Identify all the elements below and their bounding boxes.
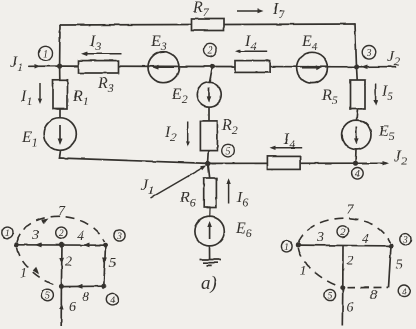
node 1 junction dot	[57, 64, 62, 69]
svg-text:4: 4	[362, 232, 369, 247]
wire node2 column down	[208, 67, 213, 164]
ground	[200, 260, 222, 266]
svg-text:8: 8	[82, 290, 89, 305]
wire left vertical node1 to top rail	[59, 25, 61, 66]
wire node1 column down	[59, 66, 60, 158]
resistor R4	[235, 61, 270, 73]
left graph: node 4 dot	[101, 284, 106, 289]
current arrow J2 out of node 4	[356, 161, 390, 165]
svg-text:4: 4	[77, 229, 84, 244]
left graph: edge 5 vertical with down arrow	[102, 245, 107, 286]
svg-text:5: 5	[45, 292, 50, 302]
resistor R6	[204, 178, 217, 207]
wire node5 down to ground branch	[208, 163, 210, 259]
left graph: edge 2 vertical with down arrow	[59, 245, 64, 287]
node 3 label circle	[362, 46, 376, 60]
wire middle row node1 row	[29, 65, 396, 68]
right graph: edge 5 vertical	[389, 246, 392, 288]
current arrow I3	[81, 52, 122, 56]
right graph: node 2 circle	[337, 226, 348, 238]
right graph: node 3 dot	[389, 243, 394, 248]
left graph: node 5 circle	[42, 289, 54, 302]
svg-text:7: 7	[58, 204, 66, 219]
current source J1 diagonal arrow into node 5	[151, 165, 207, 198]
right graph: dashed arc edge 7	[299, 218, 391, 243]
svg-text:2: 2	[208, 46, 213, 57]
svg-text:2: 2	[59, 229, 64, 239]
EMF source E3	[148, 52, 179, 83]
svg-text:2: 2	[347, 254, 354, 269]
resistor R1	[53, 80, 68, 109]
current arrow I2	[186, 122, 190, 147]
svg-text:1: 1	[300, 264, 307, 279]
current arrow I6	[226, 178, 230, 203]
svg-text:5: 5	[226, 146, 231, 157]
right graph: node 1 circle	[281, 241, 292, 253]
svg-text:3: 3	[366, 48, 372, 59]
left graph: edge 8 horizontal with left arrow	[61, 284, 103, 289]
wire top rail	[60, 24, 355, 25]
current arrow I7	[237, 9, 264, 13]
node 1 label circle	[39, 46, 53, 60]
left graph: dashed arc edge 7	[17, 216, 105, 242]
svg-text:3: 3	[116, 232, 122, 242]
left graph: node 1 dot	[14, 242, 19, 247]
svg-text:6: 6	[69, 300, 76, 315]
right graph: node 5 dot	[340, 285, 345, 290]
svg-text:1: 1	[43, 49, 48, 60]
left graph: arrow on arc 7	[42, 219, 49, 225]
node 5 label circle	[222, 144, 235, 157]
current arrow I1	[38, 83, 42, 104]
resistor R2	[200, 121, 217, 151]
EMF source E6	[195, 217, 224, 246]
svg-text:1: 1	[5, 229, 10, 239]
left graph: arrow on arc 1	[33, 267, 39, 275]
node 2 label circle	[204, 43, 217, 56]
EMF source E1	[44, 118, 77, 151]
right graph: edge 8 dashed	[348, 286, 389, 288]
svg-text:а): а)	[201, 273, 217, 294]
node 5 junction dot	[205, 161, 210, 166]
node 2 junction dot	[210, 64, 215, 69]
resistor R7	[192, 19, 225, 31]
right graph: node 3 circle	[400, 234, 411, 246]
current arrow I5	[373, 84, 377, 106]
current arrow I4 bottom	[270, 146, 303, 150]
node 3 junction dot	[354, 64, 359, 69]
left graph: node 3 circle	[114, 230, 125, 242]
left graph: node 2 dot	[60, 242, 65, 247]
svg-text:4: 4	[402, 288, 407, 298]
left graph: edge 6 vertical with up arrow	[59, 286, 64, 326]
left graph: node 3 dot	[103, 243, 108, 248]
svg-text:6: 6	[347, 301, 354, 316]
resistor R3	[79, 61, 119, 73]
svg-text:1: 1	[284, 243, 289, 253]
resistor R8 bottom row	[267, 156, 300, 169]
svg-text:2: 2	[340, 228, 345, 238]
svg-text:8: 8	[370, 288, 377, 303]
EMF source E4	[297, 52, 328, 83]
svg-text:4: 4	[110, 296, 115, 306]
wire node3 column down	[356, 67, 358, 163]
current source J1 arrow left	[34, 64, 41, 69]
svg-text:7: 7	[347, 203, 355, 218]
right graph: horizontal line edges 3 and 4	[298, 244, 391, 247]
current arrow I4 top	[235, 49, 268, 53]
left graph: node 2 circle	[56, 227, 67, 239]
svg-text:5: 5	[109, 256, 116, 271]
right graph: node 5 circle	[324, 289, 335, 301]
left graph: dashed arc edge 1	[17, 248, 60, 286]
left graph: edge 3 arrow toward node 1	[35, 242, 42, 247]
left graph: node 4 circle	[107, 293, 119, 305]
left graph: edge 4 arrow toward node 2	[83, 243, 90, 248]
svg-text:2: 2	[65, 255, 72, 270]
right graph: edge 6 vertical	[341, 288, 344, 326]
left graph: horizontal line edges 3 and 4	[16, 244, 105, 246]
left graph: node 1 circle	[2, 227, 13, 239]
right graph: node 1 dot	[296, 243, 301, 248]
svg-text:3: 3	[31, 228, 39, 243]
EMF source E2	[197, 82, 221, 106]
svg-text:5: 5	[328, 292, 333, 302]
current arrow J2 into node 3	[361, 65, 368, 70]
wire right vertical top rail to node 3	[355, 24, 357, 67]
right graph: edge 2 vertical	[342, 246, 344, 288]
svg-text:5: 5	[396, 258, 403, 273]
left graph: node 5 dot	[59, 284, 64, 289]
svg-text:1: 1	[20, 266, 27, 281]
wire bottom rail	[59, 158, 356, 163]
right graph: node 4 circle	[398, 285, 410, 298]
right graph: dashed arc edge 1	[298, 248, 341, 287]
svg-text:3: 3	[402, 236, 408, 246]
svg-text:3: 3	[316, 230, 324, 245]
svg-text:4: 4	[355, 169, 360, 180]
node 4 label circle	[352, 168, 364, 181]
EMF source E5	[342, 120, 371, 149]
resistor R5	[351, 80, 366, 109]
node 4 junction dot	[353, 161, 358, 166]
